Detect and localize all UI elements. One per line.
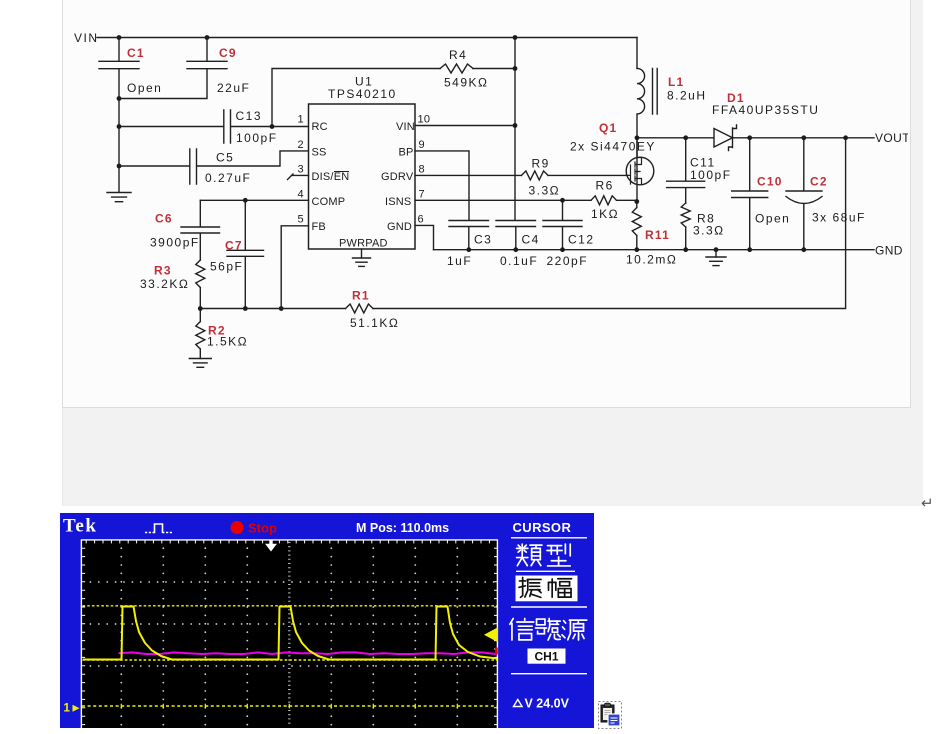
svg-text:Tek: Tek xyxy=(63,516,97,537)
svg-text:1uF: 1uF xyxy=(447,254,472,268)
svg-text:GND: GND xyxy=(875,244,903,258)
svg-text:7: 7 xyxy=(419,189,425,201)
svg-text:33.2KΩ: 33.2KΩ xyxy=(140,277,189,291)
svg-text:100pF: 100pF xyxy=(690,168,732,182)
svg-text:RC: RC xyxy=(312,121,328,133)
svg-text:C9: C9 xyxy=(219,46,237,60)
svg-text:3x 68uF: 3x 68uF xyxy=(812,211,866,225)
svg-text:BP: BP xyxy=(399,147,414,159)
svg-text:Q1: Q1 xyxy=(599,121,617,135)
svg-text:5: 5 xyxy=(298,214,304,226)
svg-text:C5: C5 xyxy=(216,151,234,165)
svg-text:220pF: 220pF xyxy=(547,254,589,268)
svg-text:22uF: 22uF xyxy=(217,81,250,95)
svg-text:Open: Open xyxy=(127,81,162,95)
svg-text:4: 4 xyxy=(298,189,304,201)
svg-text:6: 6 xyxy=(418,214,424,226)
svg-text:9: 9 xyxy=(419,139,425,151)
svg-text:PWRPAD: PWRPAD xyxy=(339,238,388,250)
svg-text:0.27uF: 0.27uF xyxy=(205,171,251,185)
svg-text:D1: D1 xyxy=(727,91,745,105)
svg-text:8.2uH: 8.2uH xyxy=(667,89,707,103)
svg-text:C2: C2 xyxy=(810,175,828,189)
svg-text:ISNS: ISNS xyxy=(385,196,411,208)
svg-text:DIS/EN: DIS/EN xyxy=(312,171,350,183)
svg-text:L1: L1 xyxy=(668,75,684,89)
svg-text:GND: GND xyxy=(387,221,412,233)
svg-text:3.3Ω: 3.3Ω xyxy=(693,224,725,238)
svg-text:10.2mΩ: 10.2mΩ xyxy=(626,253,677,267)
svg-text:C10: C10 xyxy=(757,175,783,189)
svg-text:C1: C1 xyxy=(127,46,145,60)
svg-text:2: 2 xyxy=(298,139,304,151)
svg-text:R2: R2 xyxy=(208,324,226,338)
svg-text:C7: C7 xyxy=(225,239,243,253)
svg-text:FB: FB xyxy=(312,221,326,233)
svg-text:VIN: VIN xyxy=(396,121,415,133)
svg-text:R3: R3 xyxy=(154,264,172,278)
svg-text:Stop: Stop xyxy=(248,521,277,536)
svg-text:TPS40210: TPS40210 xyxy=(328,87,397,101)
svg-text:V 24.0V: V 24.0V xyxy=(525,697,570,711)
svg-text:3.3Ω: 3.3Ω xyxy=(529,184,561,198)
svg-text:SS: SS xyxy=(312,147,327,159)
svg-text:8: 8 xyxy=(419,164,425,176)
svg-text:CURSOR: CURSOR xyxy=(513,520,572,535)
svg-text:R4: R4 xyxy=(449,48,467,62)
svg-text:0.1uF: 0.1uF xyxy=(500,254,538,268)
svg-text:100pF: 100pF xyxy=(236,131,278,145)
svg-text:GDRV: GDRV xyxy=(381,171,414,183)
svg-text:M Pos: 110.0ms: M Pos: 110.0ms xyxy=(356,521,449,535)
svg-text:COMP: COMP xyxy=(312,196,346,208)
svg-text:R1: R1 xyxy=(352,289,370,303)
svg-text:C13: C13 xyxy=(236,109,263,123)
svg-text:1: 1 xyxy=(298,114,304,126)
svg-text:R9: R9 xyxy=(532,157,550,171)
svg-text:1KΩ: 1KΩ xyxy=(591,207,619,221)
svg-text:R11: R11 xyxy=(645,228,670,242)
svg-text:10: 10 xyxy=(418,114,431,126)
svg-text:2x Si4470EY: 2x Si4470EY xyxy=(570,140,656,154)
svg-text:C6: C6 xyxy=(155,212,173,226)
svg-text:R6: R6 xyxy=(596,179,614,193)
svg-text:FFA40UP35STU: FFA40UP35STU xyxy=(712,103,819,117)
svg-text:C3: C3 xyxy=(474,233,492,247)
svg-text:C12: C12 xyxy=(568,233,595,247)
svg-text:3900pF: 3900pF xyxy=(150,236,200,250)
svg-text:Open: Open xyxy=(755,212,790,226)
svg-text:1: 1 xyxy=(64,703,71,715)
svg-text:C4: C4 xyxy=(522,233,540,247)
svg-text:3: 3 xyxy=(298,164,304,176)
svg-text:VOUT: VOUT xyxy=(875,131,908,145)
svg-text:51.1KΩ: 51.1KΩ xyxy=(350,316,399,330)
svg-text:VIN: VIN xyxy=(74,31,99,45)
svg-text:56pF: 56pF xyxy=(210,260,243,274)
svg-text:CH1: CH1 xyxy=(534,650,558,664)
svg-text:549KΩ: 549KΩ xyxy=(444,76,489,90)
